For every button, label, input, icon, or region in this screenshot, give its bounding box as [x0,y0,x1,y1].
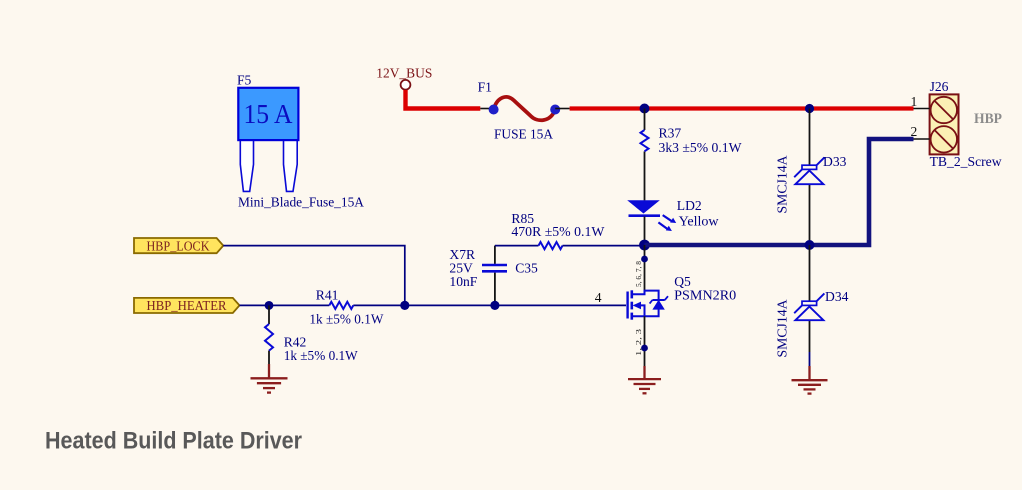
svg-text:1, 2, 3: 1, 2, 3 [634,329,643,356]
junction dot D33 bottom [805,240,815,250]
ground under Q5 [628,366,661,393]
TVS diode D33 pins [809,109,811,166]
svg-text:HBP_LOCK: HBP_LOCK [147,238,210,253]
svg-text:2: 2 [911,124,918,139]
svg-text:1k ±5% 0.1W: 1k ±5% 0.1W [284,348,358,363]
resistor R85 zigzag [539,242,563,249]
junction dot R41 right / HBP_LOCK [400,301,409,310]
pin stub J26 pin1 [914,108,930,110]
LED LD2 triangle [627,200,660,213]
svg-text:3k3 ±5% 0.1W: 3k3 ±5% 0.1W [659,140,742,155]
svg-text:SMCJ14A: SMCJ14A [775,299,790,357]
junction dot F1 pin1 [489,105,499,115]
wire HBP_HEATER to R41 [240,304,330,306]
wire red bus right segment to J26 [570,106,914,110]
svg-text:TB_2_Screw: TB_2_Screw [930,154,1002,169]
svg-text:10nF: 10nF [449,274,477,289]
TVS diode D34 symbol [794,293,824,320]
svg-text:HBP_HEATER: HBP_HEATER [147,298,228,313]
wire R85 left [495,245,539,247]
svg-text:5, 6, 7, 8: 5, 6, 7, 8 [634,261,643,287]
svg-text:15 A: 15 A [244,98,293,129]
svg-text:SMCJ14A: SMCJ14A [775,155,790,213]
resistor R42 pins [268,305,270,324]
svg-text:12V_BUS: 12V_BUS [376,66,432,81]
junction dot node D33 top [805,104,814,113]
svg-text:4: 4 [595,290,602,305]
port HBP_HEATER flag [134,298,240,313]
junction dot C35 bottom [490,301,499,310]
svg-text:D34: D34 [825,289,849,304]
pin stub F1 left [480,108,493,110]
fuse F5 body [238,88,298,192]
MOSFET Q5 symbol [628,290,668,319]
svg-text:Mini_Blade_Fuse_15A: Mini_Blade_Fuse_15A [238,195,364,210]
LED LD2 pin bottom [644,217,646,246]
svg-text:LD2: LD2 [677,198,702,213]
wire R85 right [563,245,645,247]
connector J26 screw circle 2 [931,126,957,152]
svg-text:F1: F1 [478,80,492,95]
junction dot F1 pin2 [550,105,560,115]
TVS diode D33 symbol [794,157,824,184]
svg-text:HBP: HBP [974,111,1002,127]
svg-text:D33: D33 [823,154,847,169]
resistor R37 zigzag [641,130,649,151]
svg-text:F5: F5 [237,73,252,88]
resistor R37 pins [644,109,646,131]
ground under R42 [251,364,288,393]
svg-text:R41: R41 [316,287,339,302]
wire R41 right to Q5 gate [353,304,626,306]
resistor R41 zigzag [329,302,353,309]
LED LD2 cathode bar [629,214,661,217]
pin stub J26 pin2 [914,138,930,140]
capacitor C35 plates [482,264,507,267]
svg-text:R37: R37 [659,126,682,141]
wire 12V_BUS red vertical and left bus segment [406,90,481,109]
wire thick drain net to J26 pin2 [645,139,914,245]
capacitor C35 pins [494,246,496,264]
MOSFET Q5 drain pin [644,245,646,294]
junction dot node R37 top [640,104,650,114]
ground under D34 [792,366,828,394]
svg-text:Heated Build Plate Driver: Heated Build Plate Driver [45,428,302,455]
port HBP_LOCK flag [134,238,223,253]
MOSFET Q5 source pins dot [641,345,648,352]
MOSFET Q5 drain pins dot [641,256,648,263]
LED LD2 emission arrow 1 [663,215,677,223]
svg-text:C35: C35 [515,260,538,275]
svg-text:470R ±5% 0.1W: 470R ±5% 0.1W [511,224,604,239]
svg-text:FUSE 15A: FUSE 15A [494,126,553,141]
LED LD2 emission arrow 2 [658,222,672,231]
svg-text:PSMN2R0: PSMN2R0 [674,288,736,303]
junction dot HBP_HEATER / R42 [265,301,274,310]
connector J26 box [930,94,959,154]
junction dot drain node [639,240,650,251]
svg-text:J26: J26 [930,79,949,94]
connector J26 screw circle 1 [931,97,957,123]
MOSFET Q5 source pin [644,316,646,366]
pin stub F1 right [555,108,569,110]
resistor R42 zigzag [265,324,273,351]
TVS diode D34 pins [809,245,811,301]
svg-text:1: 1 [911,94,918,109]
wire HBP_LOCK to R41 right node [223,246,404,306]
svg-text:1k ±5% 0.1W: 1k ±5% 0.1W [309,312,383,327]
power port 12V_BUS circle [401,80,411,90]
fuse F1 squiggle [494,97,556,120]
svg-text:Yellow: Yellow [679,214,719,229]
